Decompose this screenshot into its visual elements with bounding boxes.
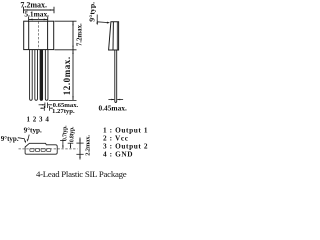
svg-text:1.27typ.: 1.27typ.: [52, 108, 75, 115]
svg-text:4: 4: [45, 116, 49, 124]
svg-text:9°typ.: 9°typ.: [87, 2, 96, 22]
svg-text:1: 1: [26, 116, 30, 124]
svg-text:7.2max.: 7.2max.: [76, 23, 83, 46]
svg-text:4-Lead Plastic SIL Package: 4-Lead Plastic SIL Package: [36, 169, 127, 179]
svg-text:9°typ.: 9°typ.: [24, 126, 42, 134]
svg-text:5.1max.: 5.1max.: [24, 10, 49, 19]
svg-text:0.7typ.: 0.7typ.: [62, 125, 68, 141]
svg-text:2: 2: [33, 116, 37, 124]
svg-text:4 : GND: 4 : GND: [103, 150, 133, 159]
svg-text:3: 3: [39, 116, 43, 124]
svg-text:2.2max.: 2.2max.: [85, 135, 92, 156]
svg-text:12.0max.: 12.0max.: [62, 56, 72, 95]
svg-text:9°typ.: 9°typ.: [1, 135, 19, 143]
svg-text:0.45max.: 0.45max.: [99, 104, 127, 113]
svg-text:7.2max.: 7.2max.: [20, 0, 47, 9]
svg-text:0.8typ.: 0.8typ.: [69, 126, 75, 142]
